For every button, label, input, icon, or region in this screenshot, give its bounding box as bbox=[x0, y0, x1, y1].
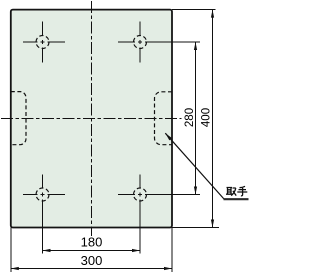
svg-text:400: 400 bbox=[201, 108, 213, 127]
svg-text:280: 280 bbox=[184, 108, 196, 127]
leader line to handle bbox=[165, 133, 224, 199]
extension line top right (400) bbox=[172, 9, 216, 11]
hole top-left center mark bbox=[23, 22, 65, 63]
label 取手 (handle) drawn as paths: kanji 取 bbox=[226, 188, 236, 196]
horizontal centerline bbox=[1, 118, 182, 120]
dimension line 180 bbox=[43, 250, 141, 252]
dimension line 300 bbox=[11, 268, 172, 270]
leader arrowhead bbox=[165, 133, 172, 140]
leader underline bbox=[224, 198, 249, 200]
hole bottom-right circle bbox=[134, 188, 147, 201]
dimension line 400 bbox=[212, 10, 214, 228]
right handle slot (hidden outline) bbox=[155, 92, 173, 145]
hole bottom-left center mark + extension to 180 dim bbox=[23, 175, 65, 254]
extension line bottom-left edge (300) bbox=[10, 228, 12, 273]
hole bottom-right center mark + extensions bbox=[118, 175, 200, 254]
hole top-right center mark + extension to 280 dim bbox=[118, 22, 200, 63]
extension line bottom-right edge (300) bbox=[171, 228, 173, 273]
hole top-right circle bbox=[134, 36, 147, 49]
hole top-left circle bbox=[36, 36, 49, 49]
svg-text:300: 300 bbox=[81, 253, 103, 268]
svg-text:180: 180 bbox=[81, 235, 103, 250]
hole bottom-left circle bbox=[36, 188, 49, 201]
vertical centerline bbox=[91, 1, 93, 236]
plate outline (300x400 panel) bbox=[11, 10, 172, 228]
kanji 手 bbox=[237, 186, 247, 196]
dimension line 280 bbox=[195, 42, 197, 195]
left handle slot (hidden outline) bbox=[11, 92, 26, 145]
extension line bottom right (400) bbox=[172, 227, 219, 229]
